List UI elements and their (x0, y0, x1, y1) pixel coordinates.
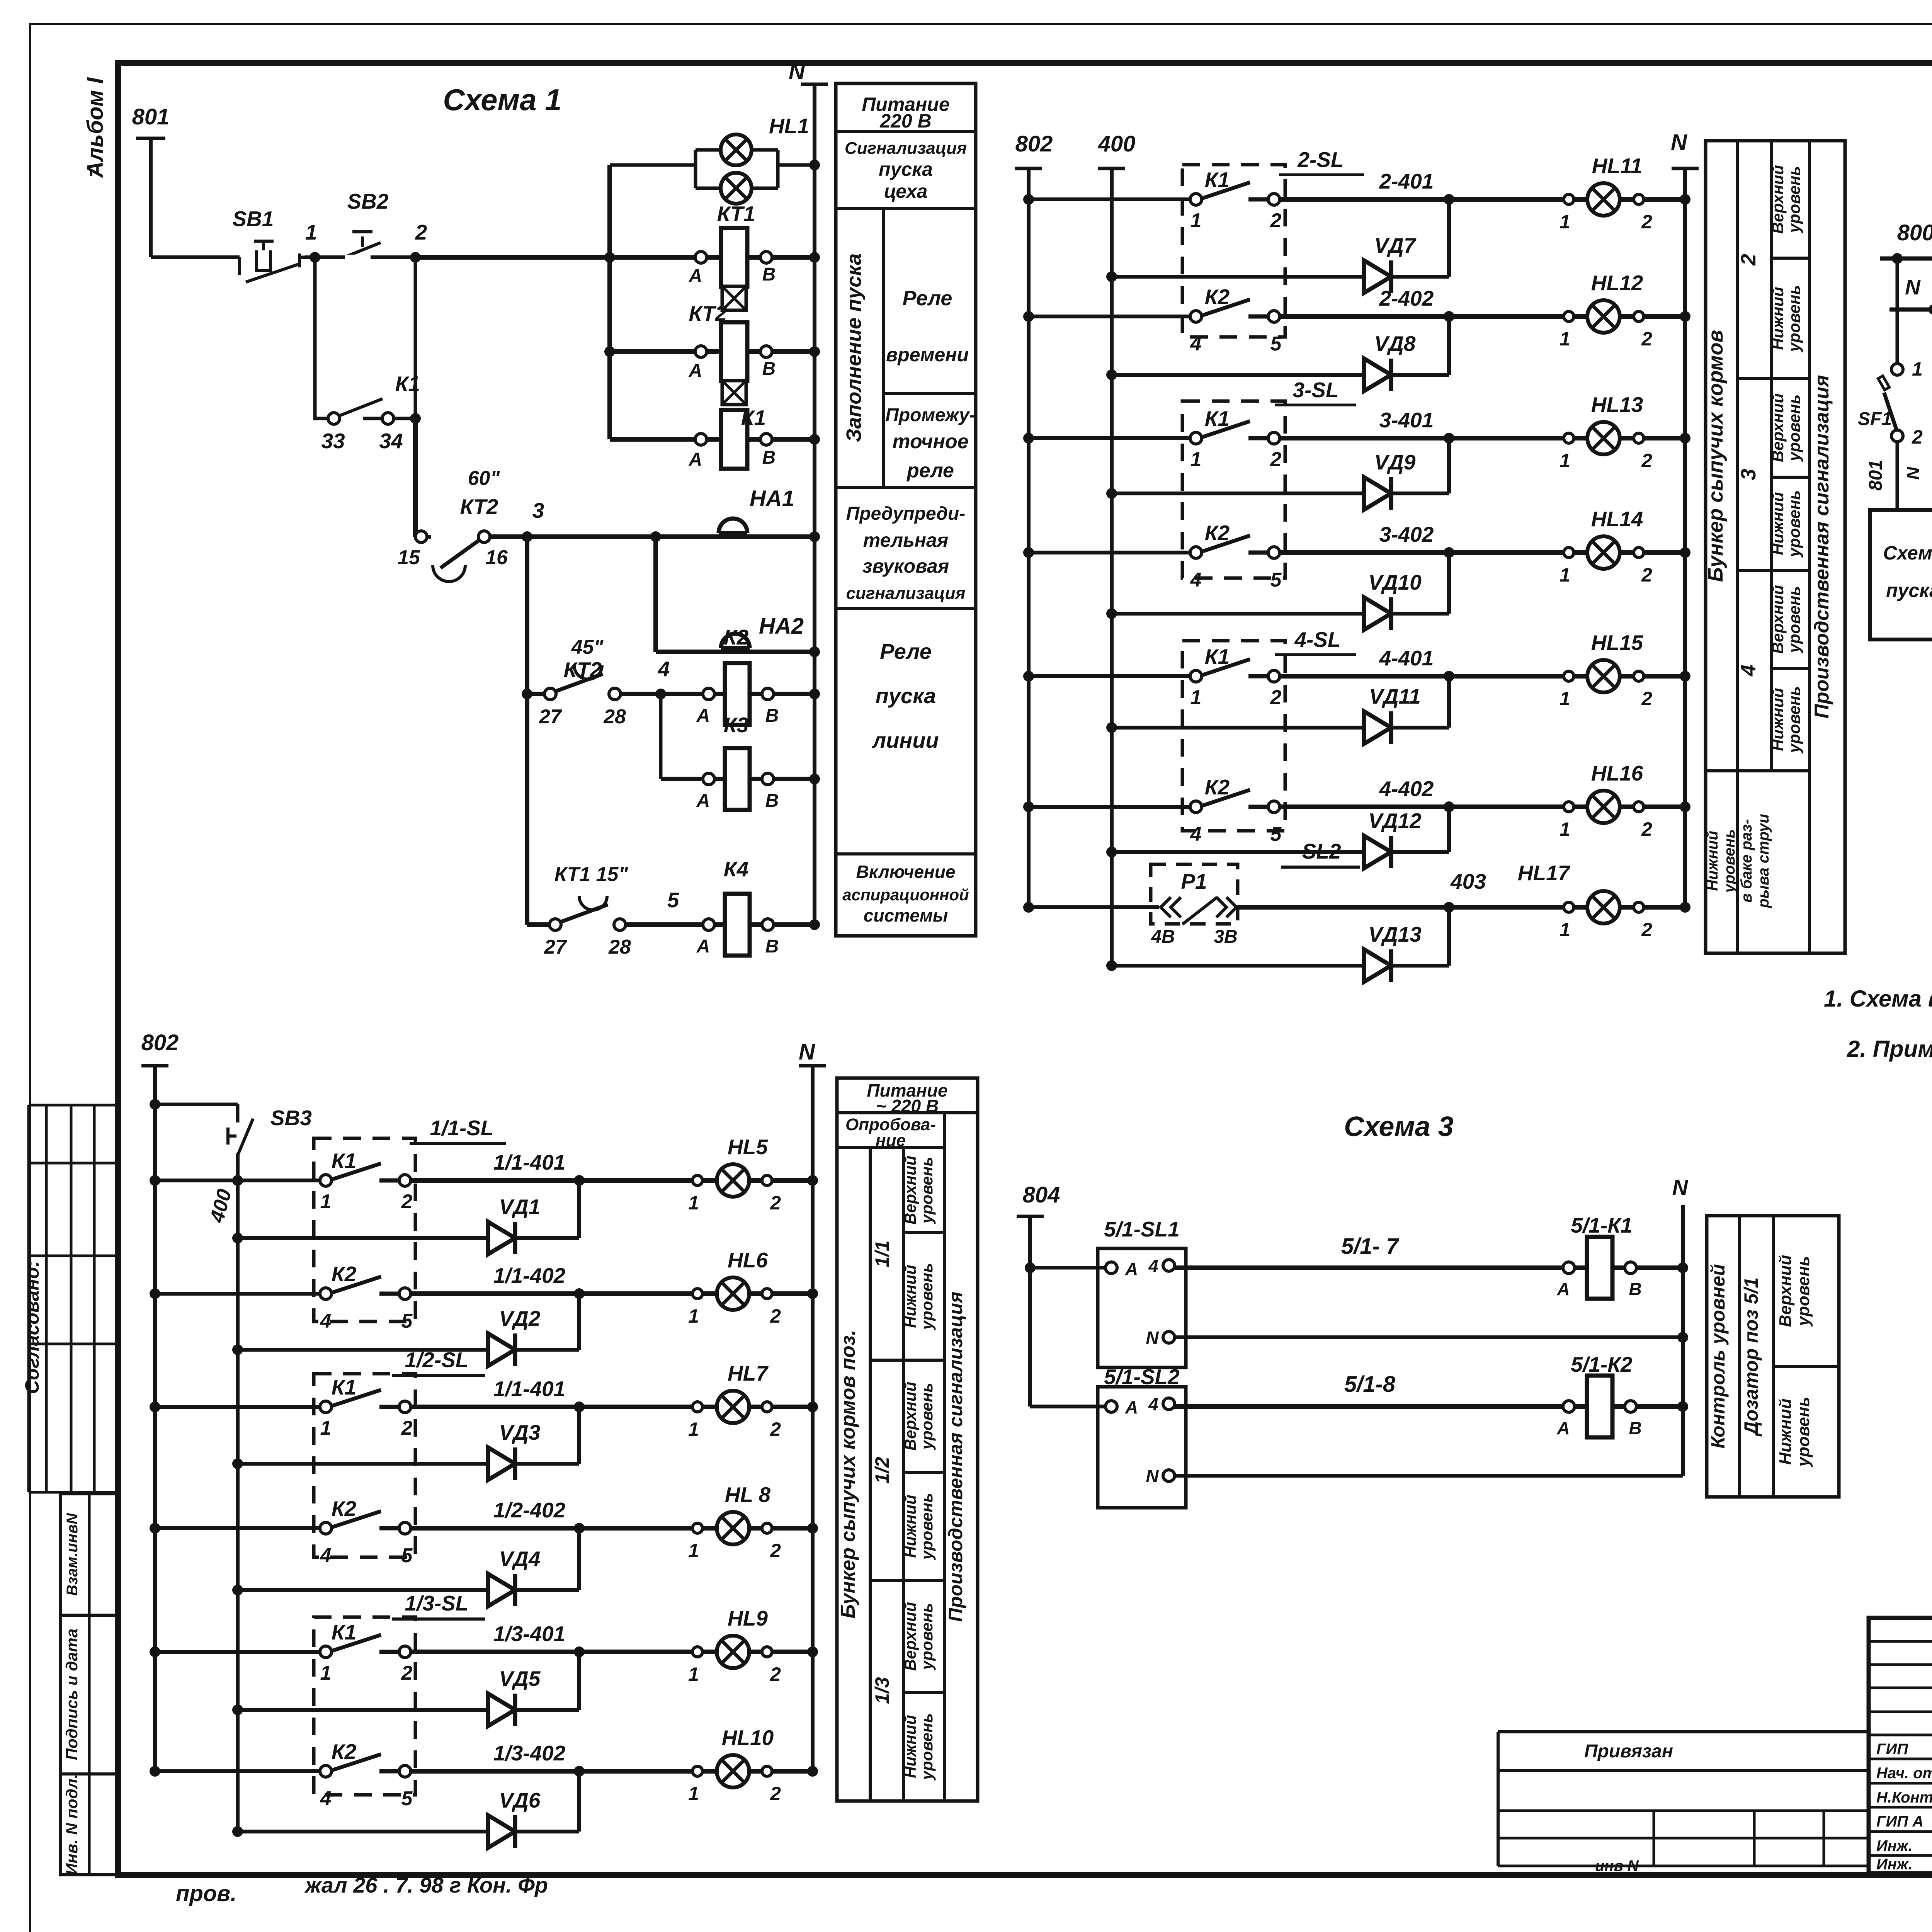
svg-text:Нижний: Нижний (1769, 287, 1787, 350)
svg-text:А: А (1556, 1418, 1570, 1438)
rung HL10 (150, 1766, 160, 1777)
svg-text:1: 1 (1190, 209, 1202, 232)
svg-text:Нижний: Нижний (901, 1495, 919, 1558)
svg-text:В: В (765, 706, 779, 726)
svg-text:2: 2 (1641, 450, 1652, 471)
svg-text:Бункер сыпучих кормов поз: Бункер сыпучих кормов поз. (837, 1330, 859, 1618)
lamp HL16 (1587, 791, 1620, 823)
svg-text:5/1-SL1: 5/1-SL1 (1104, 1217, 1180, 1241)
lamp HL13 (1587, 422, 1620, 454)
svg-text:27: 27 (544, 936, 567, 958)
svg-text:уровень: уровень (918, 1713, 936, 1781)
svg-text:Верхний: Верхний (901, 1382, 919, 1451)
dashed box group 1 (bottom) (314, 1138, 415, 1321)
svg-text:HL5: HL5 (728, 1135, 768, 1159)
svg-text:Р1: Р1 (1181, 869, 1207, 893)
svg-text:4: 4 (1737, 665, 1760, 677)
svg-text:1/2-SL: 1/2-SL (405, 1348, 468, 1372)
relay coil K1 (610, 437, 815, 442)
svg-text:А: А (689, 361, 702, 381)
svg-text:~ 220 В: ~ 220 В (876, 1096, 939, 1116)
rung HL6 (150, 1288, 160, 1299)
svg-text:В: В (1629, 1279, 1641, 1299)
svg-text:2: 2 (770, 1783, 781, 1804)
svg-text:VД2: VД2 (499, 1306, 541, 1330)
diode VД4 (232, 1585, 243, 1595)
contact P1 (1151, 864, 1238, 924)
svg-text:2: 2 (1641, 564, 1652, 586)
svg-text:Схема 3: Схема 3 (1344, 1111, 1454, 1142)
svg-text:45": 45" (571, 636, 604, 658)
svg-text:КТ2: КТ2 (460, 495, 498, 519)
svg-text:N: N (1905, 275, 1921, 299)
rung HL15 (1023, 671, 1034, 682)
node 5 (625, 922, 815, 927)
svg-text:HL16: HL16 (1591, 761, 1643, 785)
svg-text:HL14: HL14 (1591, 507, 1643, 531)
svg-text:60": 60" (468, 467, 500, 490)
svg-text:SF1: SF1 (1858, 409, 1892, 429)
wire to relay column (415, 255, 815, 260)
svg-text:4-SL: 4-SL (1294, 628, 1340, 651)
title block (1869, 1618, 1932, 1873)
node 2 (410, 252, 421, 263)
wire main rung (151, 255, 240, 259)
svg-text:HL11: HL11 (1592, 154, 1642, 178)
svg-text:Предупреди-: Предупреди- (846, 503, 965, 524)
svg-text:VД5: VД5 (499, 1667, 541, 1690)
svg-text:2: 2 (770, 1305, 781, 1327)
svg-text:1: 1 (688, 1192, 699, 1214)
svg-text:аспирационной: аспирационной (842, 886, 969, 904)
wire node2 down (413, 418, 418, 537)
lamp HL5 (717, 1164, 749, 1197)
svg-text:1: 1 (1560, 211, 1570, 233)
svg-text:уровень: уровень (1785, 166, 1803, 234)
svg-text:2: 2 (770, 1663, 781, 1685)
svg-text:К1: К1 (1205, 406, 1230, 430)
svg-text:в баке раз-: в баке раз- (1738, 819, 1755, 903)
svg-text:3-401: 3-401 (1379, 408, 1434, 432)
svg-text:VД7: VД7 (1374, 233, 1417, 257)
svg-text:уровень: уровень (1794, 1397, 1813, 1468)
svg-text:3-SL: 3-SL (1293, 378, 1338, 402)
svg-text:2: 2 (401, 1417, 413, 1439)
svg-text:403: 403 (1450, 869, 1486, 893)
svg-text:ГИП А: ГИП А (1876, 1813, 1923, 1830)
svg-text:1. Схема выполнена на листа: 1. Схема выполнена на листах 3...6 (1824, 986, 1932, 1012)
diode VД7 (1106, 271, 1117, 282)
svg-text:2: 2 (1912, 426, 1923, 448)
table level detectors (1870, 510, 1932, 639)
svg-text:А: А (696, 791, 710, 811)
svg-text:2. Примечания см. лист 6: 2. Примечания см. лист 6 (1847, 1036, 1932, 1062)
node 1 (305, 255, 415, 259)
svg-text:уровень: уровень (1785, 686, 1803, 754)
approval grid (Согласовано) (29, 1104, 118, 1107)
svg-text:N: N (789, 59, 805, 84)
svg-text:27: 27 (539, 706, 562, 728)
node 4 (620, 692, 815, 696)
svg-text:Инв. N подл.: Инв. N подл. (63, 1774, 81, 1875)
svg-text:1/2-402: 1/2-402 (493, 1498, 566, 1522)
neutral drop (1929, 304, 1932, 315)
svg-text:2: 2 (1737, 254, 1760, 266)
svg-text:2: 2 (770, 1192, 781, 1214)
svg-text:4: 4 (1190, 823, 1202, 845)
svg-text:Дозатор поз 5/1: Дозатор поз 5/1 (1740, 1277, 1762, 1437)
wire N from SL1 (1174, 1335, 1683, 1339)
svg-text:2: 2 (1641, 328, 1652, 350)
svg-text:ние: ние (876, 1131, 906, 1150)
svg-text:2: 2 (401, 1662, 413, 1684)
svg-text:HL1: HL1 (769, 114, 809, 138)
svg-text:4: 4 (320, 1787, 332, 1810)
lamp HL1b (721, 173, 752, 204)
svg-text:N: N (1146, 1466, 1159, 1486)
dashed box K1/K2 group 1 (1182, 165, 1285, 337)
svg-text:уровень: уровень (1785, 285, 1803, 353)
svg-text:2-SL: 2-SL (1297, 148, 1344, 172)
svg-text:уровень: уровень (1721, 829, 1738, 893)
svg-text:К2: К2 (1205, 521, 1230, 545)
svg-text:1/3: 1/3 (871, 1677, 893, 1704)
svg-text:VД3: VД3 (499, 1420, 541, 1444)
svg-text:HL15: HL15 (1591, 631, 1644, 655)
dashed box group 2 (bottom) (314, 1374, 415, 1557)
svg-text:HL17: HL17 (1518, 861, 1571, 885)
svg-text:Верхний: Верхний (1769, 393, 1787, 462)
wire 5/1-8 (1174, 1404, 1683, 1409)
rung HL13 (1023, 433, 1034, 444)
svg-text:К1: К1 (332, 1375, 356, 1399)
svg-text:1: 1 (305, 220, 317, 244)
svg-text:4: 4 (320, 1544, 332, 1567)
svg-text:пуска: пуска (1886, 580, 1932, 601)
svg-text:1/3-401: 1/3-401 (493, 1622, 566, 1646)
svg-text:HL9: HL9 (728, 1606, 768, 1630)
relay coil KT2 (610, 349, 815, 354)
svg-text:2: 2 (415, 220, 427, 244)
rung HL9 (150, 1646, 160, 1657)
svg-text:Нижний: Нижний (901, 1265, 919, 1328)
svg-text:4: 4 (320, 1310, 332, 1332)
svg-text:5/1-К2: 5/1-К2 (1571, 1352, 1633, 1376)
svg-text:пров.: пров. (176, 1881, 236, 1906)
svg-text:2-401: 2-401 (1379, 169, 1434, 193)
diode VД11 (1106, 722, 1117, 733)
svg-text:801: 801 (132, 104, 170, 129)
svg-text:Верхний: Верхний (1776, 1255, 1795, 1327)
svg-text:2: 2 (401, 1190, 413, 1213)
svg-text:Нач. отд.: Нач. отд. (1876, 1765, 1932, 1782)
svg-text:А: А (1556, 1279, 1570, 1299)
diode VД1 (232, 1233, 243, 1243)
svg-text:Инж.: Инж. (1876, 1837, 1913, 1854)
svg-text:VД8: VД8 (1374, 332, 1416, 355)
svg-text:HL10: HL10 (722, 1726, 774, 1750)
svg-text:SL2: SL2 (1302, 839, 1341, 863)
svg-text:КТ2: КТ2 (689, 301, 727, 325)
SB3 branch (150, 1099, 160, 1110)
svg-text:4: 4 (1190, 569, 1202, 591)
svg-text:1/1: 1/1 (871, 1240, 893, 1267)
svg-text:Заполнение пуска: Заполнение пуска (842, 253, 866, 442)
function table (bottom) (837, 1078, 978, 1801)
svg-text:HL6: HL6 (728, 1248, 768, 1272)
rung HL7 (150, 1401, 160, 1412)
relay coil KT1 (695, 252, 707, 263)
svg-text:5/1- 7: 5/1- 7 (1341, 1234, 1400, 1259)
svg-text:3: 3 (1737, 469, 1760, 480)
diode VД8 (1106, 369, 1117, 380)
svg-text:SB1: SB1 (233, 207, 274, 231)
wire 801 down (149, 138, 153, 257)
lamp HL9 (717, 1636, 749, 1668)
svg-text:Сигнализация: Сигнализация (845, 139, 967, 158)
svg-text:В: В (762, 359, 776, 379)
wire N from SL2 (1174, 1474, 1683, 1478)
svg-text:1: 1 (1560, 450, 1570, 471)
stamp box Взам. инв N (61, 1494, 118, 1615)
svg-text:28: 28 (603, 706, 626, 728)
svg-text:1: 1 (688, 1663, 699, 1685)
svg-text:28: 28 (608, 936, 631, 958)
svg-text:рыва струи: рыва струи (1755, 814, 1772, 908)
svg-text:5: 5 (667, 888, 680, 912)
svg-text:К2: К2 (332, 1497, 357, 1520)
svg-text:цеха: цеха (884, 180, 928, 202)
svg-text:В: В (762, 264, 776, 285)
svg-text:К1: К1 (1205, 168, 1230, 192)
svg-text:1: 1 (688, 1540, 699, 1561)
svg-text:N: N (1672, 1175, 1689, 1199)
breaker SF1 (1892, 253, 1903, 264)
lamp HL11 (1587, 183, 1620, 216)
svg-text:К1: К1 (741, 406, 766, 430)
wire 5/1-7 (1174, 1265, 1683, 1270)
svg-text:К2: К2 (1205, 285, 1230, 309)
svg-text:Подпись и дата: Подпись и дата (63, 1629, 81, 1760)
svg-text:802: 802 (141, 1030, 179, 1055)
diode VД13 (1106, 960, 1117, 971)
svg-text:1: 1 (320, 1417, 332, 1439)
svg-text:1: 1 (1560, 328, 1570, 350)
svg-text:Контроль уровней: Контроль уровней (1707, 1264, 1729, 1448)
diode VД9 (1106, 488, 1117, 499)
svg-text:1: 1 (1560, 688, 1570, 709)
svg-text:уровень: уровень (1785, 490, 1803, 558)
stamp box Инв. N подл. (61, 1774, 118, 1875)
svg-text:А: А (1125, 1259, 1138, 1279)
svg-text:VД9: VД9 (1374, 450, 1416, 474)
svg-text:уровень: уровень (1785, 395, 1803, 462)
branch vertical (607, 165, 612, 439)
svg-text:2: 2 (1641, 818, 1652, 840)
svg-text:2-402: 2-402 (1379, 286, 1434, 310)
svg-text:1: 1 (320, 1662, 332, 1684)
lamp branch HL1 (610, 163, 696, 167)
lamp HL6 (717, 1277, 749, 1310)
svg-text:Инж.: Инж. (1876, 1856, 1913, 1873)
lamp HL1a (721, 134, 752, 165)
svg-text:Верхний: Верхний (1769, 585, 1787, 654)
svg-text:НА2: НА2 (759, 614, 804, 639)
svg-text:1: 1 (688, 1305, 699, 1327)
svg-text:2: 2 (1641, 919, 1652, 940)
svg-text:5: 5 (401, 1787, 413, 1810)
svg-text:Производственная сигнализация: Производственная сигнализация (1811, 375, 1833, 718)
svg-text:1/1-401: 1/1-401 (493, 1150, 566, 1174)
svg-text:инв N: инв N (1595, 1857, 1639, 1874)
lamp HL15 (1587, 660, 1620, 692)
svg-text:А: А (696, 706, 710, 726)
svg-text:К1: К1 (395, 372, 420, 396)
lamp HL17 (1587, 891, 1620, 923)
svg-text:802: 802 (1015, 131, 1053, 156)
svg-text:SB3: SB3 (270, 1106, 312, 1130)
svg-text:HL12: HL12 (1591, 271, 1643, 295)
diode VД3 (232, 1458, 243, 1469)
svg-text:уровень: уровень (918, 1603, 936, 1671)
svg-text:Н.Контр.: Н.Контр. (1876, 1789, 1932, 1806)
svg-text:1: 1 (1912, 358, 1923, 380)
svg-text:уровень: уровень (918, 1383, 936, 1451)
table bunker (middle) (1706, 141, 1845, 953)
dashed box group 3 (bottom) (314, 1617, 415, 1795)
svg-text:К2: К2 (332, 1740, 357, 1764)
svg-text:4-401: 4-401 (1379, 646, 1434, 670)
rung HL5 (150, 1175, 160, 1186)
svg-text:уровень: уровень (1794, 1256, 1813, 1327)
svg-text:1/1-401: 1/1-401 (493, 1377, 566, 1401)
svg-text:К1: К1 (332, 1620, 356, 1644)
svg-text:уровень: уровень (1785, 586, 1803, 654)
svg-text:VД4: VД4 (499, 1547, 541, 1571)
attachment row (1498, 1730, 1869, 1733)
relay coil K3 (659, 694, 663, 779)
svg-text:1: 1 (1560, 919, 1570, 940)
svg-text:жал 26 . 7. 98 г Кон. Фр: жал 26 . 7. 98 г Кон. Фр (304, 1873, 548, 1897)
svg-text:В: В (765, 936, 779, 957)
function table (schema 1) (836, 83, 976, 936)
svg-text:К1: К1 (332, 1149, 356, 1173)
svg-text:VД6: VД6 (499, 1788, 541, 1812)
svg-text:VД10: VД10 (1368, 570, 1422, 594)
svg-text:Нижний: Нижний (901, 1715, 919, 1778)
svg-text:Бункер сыпучих кормов: Бункер сыпучих кормов (1704, 330, 1727, 582)
lamp HL7 (717, 1391, 749, 1423)
svg-text:К3: К3 (724, 713, 748, 737)
svg-text:1: 1 (1560, 818, 1570, 840)
svg-text:HL7: HL7 (728, 1361, 769, 1385)
svg-text:34: 34 (379, 429, 403, 453)
svg-text:Взам.инвN: Взам.инвN (64, 1513, 81, 1596)
svg-text:N: N (1146, 1328, 1159, 1348)
svg-text:SB2: SB2 (347, 189, 389, 213)
bell HA1 (719, 519, 747, 533)
svg-text:пуска: пуска (879, 158, 933, 180)
svg-text:15: 15 (398, 546, 420, 569)
small grid (1498, 1810, 1869, 1812)
svg-text:2: 2 (1270, 448, 1282, 471)
svg-text:4-402: 4-402 (1379, 777, 1434, 801)
svg-text:системы: системы (864, 905, 948, 925)
lamp HL12 (1587, 300, 1620, 333)
svg-text:Верхний: Верхний (1769, 165, 1787, 234)
diode VД12 (1106, 847, 1117, 857)
svg-text:5/1-8: 5/1-8 (1344, 1372, 1396, 1397)
svg-text:4В: 4В (1151, 927, 1175, 947)
svg-text:3-402: 3-402 (1379, 522, 1434, 546)
svg-text:реле: реле (906, 459, 954, 482)
svg-text:33: 33 (321, 429, 345, 453)
svg-text:1: 1 (688, 1418, 699, 1440)
svg-text:5/1-К1: 5/1-К1 (1571, 1213, 1632, 1237)
rung HL12 (1023, 311, 1034, 322)
svg-text:Схема: Схема (1883, 542, 1932, 564)
left chain vertical (525, 537, 529, 925)
svg-text:1/2: 1/2 (871, 1457, 893, 1484)
svg-text:точное: точное (892, 430, 968, 453)
svg-text:тельная: тельная (863, 529, 948, 551)
svg-text:Нижний: Нижний (1769, 688, 1787, 751)
diode VД10 (1106, 608, 1117, 619)
svg-text:Верхний: Верхний (901, 1156, 919, 1225)
svg-text:801: 801 (1866, 460, 1886, 491)
svg-text:уровень: уровень (918, 1263, 936, 1331)
K1 seal-in contact (315, 257, 329, 418)
svg-text:Нижний: Нижний (1704, 831, 1721, 891)
svg-text:уровень: уровень (918, 1493, 936, 1561)
svg-text:VД13: VД13 (1368, 922, 1422, 946)
rung HL14 (1023, 547, 1034, 558)
svg-text:4: 4 (1148, 1256, 1158, 1276)
svg-text:220 В: 220 В (879, 110, 931, 132)
table dosing control (1707, 1216, 1839, 1497)
svg-text:800: 800 (1897, 220, 1932, 245)
svg-text:N: N (799, 1039, 815, 1065)
rung HL 8 (150, 1523, 160, 1534)
svg-text:4: 4 (1148, 1394, 1158, 1414)
svg-text:1/1-SL: 1/1-SL (430, 1116, 493, 1140)
svg-text:2: 2 (1270, 686, 1282, 709)
svg-text:Нижний: Нижний (1776, 1398, 1795, 1465)
svg-text:звуковая: звуковая (862, 555, 949, 577)
svg-text:VД11: VД11 (1369, 684, 1421, 708)
svg-text:4: 4 (658, 657, 670, 681)
svg-text:Реле: Реле (880, 639, 932, 663)
svg-text:VД12: VД12 (1368, 809, 1422, 833)
svg-text:5: 5 (1270, 823, 1282, 845)
rung HL17 / P1 (1023, 902, 1034, 913)
diode VД2 (232, 1344, 243, 1355)
diode VД6 (232, 1826, 243, 1837)
stamp box Подпись и дата (61, 1615, 118, 1774)
svg-text:HL13: HL13 (1591, 393, 1643, 417)
lamp HL 8 (717, 1512, 749, 1544)
lamp HL10 (717, 1755, 749, 1787)
svg-text:К2: К2 (332, 1262, 357, 1286)
svg-text:1: 1 (320, 1190, 332, 1213)
svg-text:пуска: пуска (876, 684, 936, 708)
lamp HL14 (1587, 536, 1620, 569)
svg-text:К1: К1 (1205, 645, 1230, 668)
svg-text:НА1: НА1 (750, 486, 794, 511)
svg-text:Включение: Включение (856, 862, 955, 882)
svg-text:N: N (1671, 130, 1687, 155)
rung HL11 (1023, 194, 1034, 205)
